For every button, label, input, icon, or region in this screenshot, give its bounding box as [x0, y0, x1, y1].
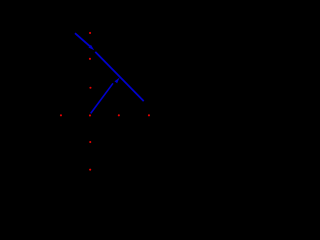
vector v arrowhead: [115, 78, 120, 84]
node: point (2,0): [148, 114, 150, 116]
node: point (0,3): [89, 32, 91, 34]
vector AB arrowhead: [89, 45, 95, 50]
node: point (0,-1): [89, 141, 91, 143]
node: point (0,2): [89, 58, 91, 60]
node: point (0,-2): [89, 169, 91, 171]
wire: line g lower segment: [95, 52, 143, 101]
node: point (-1,0): [60, 114, 62, 116]
wire: vector v shaft (origin toward line g): [91, 83, 113, 113]
wire: vector AB shaft (upper segment of diagonal): [75, 33, 90, 46]
node: point (1,0): [118, 114, 120, 116]
node: origin point (0,0): [89, 114, 91, 116]
node: point (0,1): [89, 87, 91, 89]
